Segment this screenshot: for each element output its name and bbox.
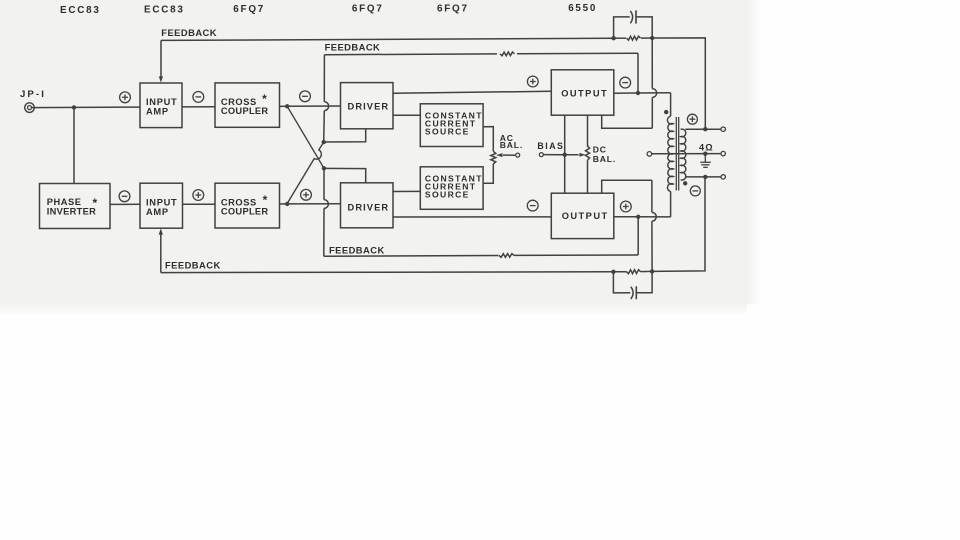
wire DRIVER 2 to CCS 2: [393, 190, 420, 192]
svg-text:BAL.: BAL.: [500, 140, 523, 150]
plus sign at OUTPUT 2 output: [620, 201, 631, 212]
label FEEDBACK top inner: [325, 42, 381, 53]
wire BIAS to rail: [544, 154, 565, 156]
wire bias rail right upper: [587, 115, 589, 147]
minus sign at OUTPUT 2 input: [527, 200, 538, 211]
node secondary phase dot: [683, 181, 687, 185]
node crossover lower junction: [322, 166, 326, 170]
connector JP-I: [25, 103, 35, 113]
label JP-I input jack: [20, 89, 46, 100]
minus sign at INPUT AMP 2 input: [119, 191, 130, 202]
svg-text:OUTPUT: OUTPUT: [561, 89, 608, 99]
svg-text:AMP: AMP: [146, 207, 169, 217]
arrow feedback 4 into INPUT AMP 2: [159, 228, 163, 234]
node primary phase dot: [664, 110, 668, 114]
node BIAS junction: [563, 153, 567, 157]
terminal AC BAL wiper: [516, 153, 520, 157]
label PHASE INVERTER: [47, 196, 98, 216]
wire feedback 4 to speaker tap corner: [652, 177, 705, 272]
transformer T1 core: [676, 117, 678, 191]
svg-text:6FQ7: 6FQ7: [437, 3, 469, 14]
wire CCS 1 to AC BAL: [483, 127, 493, 152]
wire junction to PHASE INVERTER: [73, 107, 75, 183]
block OUTPUT 2: [551, 193, 614, 238]
minus sign at INPUT AMP 1 output: [193, 92, 204, 103]
terminal BIAS: [539, 153, 543, 157]
label INPUT AMP 1: [146, 97, 177, 116]
svg-text:*: *: [263, 193, 268, 207]
label tube V5 6FQ7: [437, 3, 469, 14]
label CROSS COUPLER 2: [221, 193, 269, 217]
node OUTPUT 2 plate junction: [636, 215, 640, 219]
plus sign at OUTPUT 1 input: [527, 76, 538, 87]
block CONSTANT CURRENT SOURCE 2: [420, 167, 483, 210]
wire feedback 2 horizontal left: [324, 53, 497, 56]
wire INPUT AMP 1 to CROSS COUPLER 1: [182, 106, 215, 108]
node feedback R1 right junction: [650, 36, 654, 40]
wire upper junction to DRIVER 1 bottom: [324, 129, 366, 142]
wire OUTPUT 1 to transformer: [614, 92, 671, 94]
arrow DC BAL wiper: [579, 153, 585, 157]
wire DRIVER 1 to CCS 1: [393, 114, 420, 116]
svg-text:Ω: Ω: [705, 142, 713, 152]
svg-text:FEEDBACK: FEEDBACK: [161, 27, 217, 38]
wire bias rail right lower: [587, 160, 589, 193]
label DRIVER 1: [348, 101, 390, 111]
wire to DRIVER 1 input: [287, 105, 340, 107]
svg-text:SOURCE: SOURCE: [425, 189, 470, 199]
label BIAS: [537, 141, 564, 151]
wire secondary center tap: [652, 153, 721, 155]
label INPUT AMP 2: [146, 198, 177, 217]
svg-text:AMP: AMP: [146, 106, 169, 116]
block INPUT AMP 2: [140, 183, 183, 228]
label CROSS COUPLER 1: [221, 92, 269, 116]
capacitor C1 loop wires: [614, 17, 653, 38]
wire CROSS COUPLER 2 output: [280, 203, 288, 205]
wire feedback 2 horizontal right: [517, 52, 638, 55]
minus sign at OUTPUT 1 output: [620, 77, 631, 88]
svg-text:ECC83: ECC83: [60, 5, 101, 16]
label DC BAL: [593, 145, 616, 165]
block PHASE INVERTER: [40, 184, 111, 229]
block DRIVER 2: [341, 183, 394, 228]
svg-text:FEEDBACK: FEEDBACK: [329, 244, 385, 255]
wire feedback 3 horizontal left: [324, 255, 499, 258]
svg-text:DRIVER: DRIVER: [348, 101, 390, 111]
terminal speaker top: [721, 127, 725, 131]
wire OUTPUT 1 screen stub: [602, 115, 653, 128]
capacitor C1 straight plate: [635, 10, 637, 23]
label FEEDBACK bottom inner: [329, 244, 385, 255]
label FEEDBACK top outer: [161, 27, 217, 38]
node feedback R4 right junction: [650, 269, 654, 273]
block CROSS COUPLER 2: [215, 183, 280, 228]
wire feedback 3 vertical from crossover with hop: [324, 168, 329, 256]
wire secondary bottom tap: [685, 176, 721, 178]
block OUTPUT 1: [551, 70, 614, 115]
capacitor C1 curved plate: [630, 11, 632, 23]
label CCS 1: [425, 110, 483, 136]
wire feedback 4 rise to INPUT AMP 2: [160, 232, 162, 272]
svg-text:COUPLER: COUPLER: [221, 207, 269, 217]
wire DRIVER 1 to OUTPUT 1: [393, 91, 551, 93]
node feedback R4 left junction: [611, 270, 615, 274]
wire DRIVER 2 to OUTPUT 2: [393, 216, 551, 218]
wire feedback 3 horizontal right: [514, 254, 638, 256]
label tube V1 ECC83: [60, 5, 101, 16]
potentiometer DC BAL zigzag: [586, 146, 590, 160]
svg-text:SOURCE: SOURCE: [425, 126, 470, 136]
svg-text:BAL.: BAL.: [593, 154, 616, 164]
plus sign at INPUT AMP 2 output: [193, 190, 204, 201]
ground symbol: [700, 154, 711, 168]
svg-text:FEEDBACK: FEEDBACK: [325, 42, 381, 53]
plus sign at secondary top: [687, 114, 697, 124]
svg-text:DC: DC: [593, 145, 607, 155]
minus sign at CROSS COUPLER 1 output: [300, 91, 311, 102]
node crossover upper junction: [322, 140, 326, 144]
potentiometer AC BAL zigzag: [491, 151, 496, 164]
resistor R4 feedback: [627, 270, 641, 274]
svg-text:OUTPUT: OUTPUT: [562, 211, 609, 221]
node cross coupler 2 output junction: [285, 202, 289, 206]
svg-text:DRIVER: DRIVER: [348, 202, 390, 212]
svg-text:INVERTER: INVERTER: [47, 206, 96, 216]
wire PHASE INVERTER to INPUT AMP 2: [110, 203, 140, 205]
block CONSTANT CURRENT SOURCE 1: [420, 104, 483, 147]
wire feedback 2 drop to output node: [637, 53, 639, 93]
wire BIAS to DC BAL wiper: [565, 154, 579, 156]
terminal speaker bottom: [721, 175, 725, 179]
capacitor C2 curved plate: [631, 287, 633, 299]
label CCS 2: [425, 173, 483, 199]
transformer T1 primary winding: [667, 116, 673, 191]
wire AC BAL wiper: [503, 154, 515, 156]
svg-text:*: *: [262, 92, 267, 106]
wire to DRIVER 2 input: [287, 203, 340, 205]
svg-text:6FQ7: 6FQ7: [233, 4, 265, 15]
svg-text:JP-I: JP-I: [20, 89, 46, 100]
svg-text:FEEDBACK: FEEDBACK: [165, 260, 221, 271]
resistor R2 feedback: [500, 52, 515, 56]
node secondary center tap junction: [703, 152, 707, 156]
label 4 ohm: [699, 142, 713, 152]
wire bias rail left: [564, 115, 566, 193]
node cross coupler 1 output junction: [285, 104, 289, 108]
terminal speaker center: [721, 151, 725, 155]
node secondary top tap junction: [703, 127, 707, 131]
node feedback R1 left junction: [611, 36, 615, 40]
label OUTPUT 1: [561, 89, 608, 99]
wire feedback 1 drop to INPUT AMP 1: [160, 40, 162, 78]
label tube V6 6550: [568, 3, 597, 14]
wire primary bottom lead: [670, 192, 672, 217]
wire screen stub 2 vertical with hop: [652, 180, 656, 271]
wire input to INPUT AMP 1: [32, 106, 140, 109]
node secondary bottom tap junction: [703, 175, 707, 179]
capacitor C2 loop wires: [613, 271, 652, 293]
wire screen stub 1 vertical with hop: [652, 38, 656, 128]
wire AC BAL to CCS 2: [483, 164, 493, 183]
label tube V2 ECC83: [144, 4, 185, 15]
arrow AC BAL wiper: [496, 153, 503, 157]
svg-text:COUPLER: COUPLER: [221, 106, 269, 116]
resistor R3 feedback: [499, 254, 514, 258]
resistor R1 feedback: [627, 36, 641, 40]
plus sign at CROSS COUPLER 2 output: [301, 189, 312, 200]
wire INPUT AMP 2 to CROSS COUPLER 2: [183, 203, 216, 205]
svg-text:4: 4: [699, 142, 705, 152]
label AC BAL: [500, 133, 523, 150]
svg-text:6FQ7: 6FQ7: [352, 4, 384, 15]
minus sign at secondary bottom: [690, 186, 700, 196]
capacitor C2 straight plate: [635, 286, 637, 299]
wire OUTPUT 2 to transformer: [614, 216, 671, 218]
label tube V4 6FQ7: [352, 4, 384, 15]
plus sign at INPUT AMP 1 input: [120, 92, 131, 103]
arrow feedback 1 into INPUT AMP 1: [159, 76, 163, 82]
wire primary top lead: [670, 93, 672, 116]
svg-text:BIAS: BIAS: [537, 141, 564, 151]
block CROSS COUPLER 1: [215, 83, 280, 127]
label FEEDBACK bottom outer: [165, 260, 221, 271]
wire feedback 3 rise to output node: [637, 217, 639, 255]
wire R1 junctions: [614, 37, 653, 39]
label OUTPUT 2: [562, 211, 609, 221]
transformer T1 secondary winding: [681, 129, 686, 180]
label tube V3 6FQ7: [233, 4, 265, 15]
wire feedback 2 vertical to crossover with hop: [324, 55, 329, 142]
wire OUTPUT 2 screen stub: [602, 180, 652, 193]
wire cross-connect diagonal 1: [287, 106, 324, 168]
svg-text:6550: 6550: [568, 3, 597, 14]
node input junction: [72, 105, 76, 109]
wire R4 junctions: [613, 270, 652, 272]
svg-text:ECC83: ECC83: [144, 4, 185, 15]
terminal secondary center tap left: [647, 152, 652, 157]
wire cross-connect diagonal 2 with hop: [287, 142, 324, 203]
wire feedback 1 horizontal: [161, 38, 614, 40]
wire feedback 4 horizontal: [161, 271, 614, 274]
wire lower junction to DRIVER 2 top: [324, 168, 366, 182]
wire CROSS COUPLER 1 output: [280, 105, 288, 107]
wire feedback 1 to speaker tap corner: [652, 38, 705, 129]
label DRIVER 2: [348, 202, 390, 212]
block INPUT AMP 1: [140, 83, 182, 128]
block DRIVER 1: [341, 83, 394, 129]
node OUTPUT 1 plate junction: [636, 91, 640, 95]
wire secondary top tap: [685, 128, 721, 130]
